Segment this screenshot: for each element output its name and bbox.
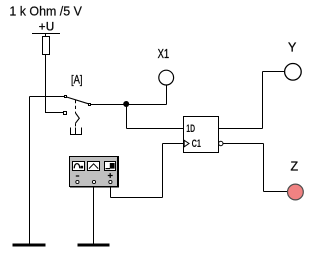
svg-text:+: + — [39, 22, 46, 34]
svg-text:1D: 1D — [186, 123, 195, 135]
svg-text:X1: X1 — [158, 47, 170, 61]
svg-text:[A]: [A] — [71, 72, 83, 86]
svg-text:Y: Y — [288, 41, 297, 55]
svg-text:1 k Ohm /5 V: 1 k Ohm /5 V — [9, 4, 82, 19]
svg-text:Z: Z — [291, 160, 299, 174]
svg-text:U: U — [46, 22, 54, 34]
svg-text:C1: C1 — [192, 138, 201, 150]
